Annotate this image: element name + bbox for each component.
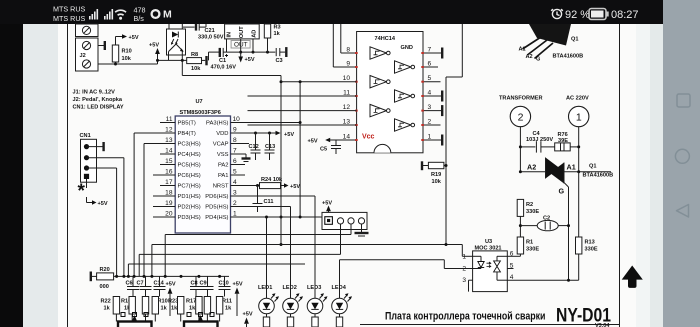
triac Q1: [519, 158, 613, 196]
U3 pin3 hook: [469, 280, 473, 291]
schematic frame right border: [619, 24, 621, 327]
resistor R13: [576, 172, 598, 281]
svg-text:C8: C8: [191, 280, 198, 286]
svg-text:PC5(HS): PC5(HS): [178, 163, 201, 169]
svg-text:GND: GND: [401, 45, 413, 51]
svg-text:10k: 10k: [122, 56, 132, 62]
nested wire L1: [165, 235, 351, 277]
svg-text:PD1(HS): PD1(HS): [178, 194, 201, 200]
+5V arrow right of C10: [233, 282, 243, 317]
MCU left pin labels: [178, 121, 201, 222]
svg-text:R2: R2: [526, 202, 533, 208]
gate wire: [568, 187, 570, 280]
svg-text:4: 4: [233, 179, 237, 186]
svg-text:A1: A1: [519, 47, 526, 53]
status: battery icon: [589, 9, 609, 20]
svg-text:5: 5: [428, 75, 432, 82]
ladder wire to pin10: [281, 81, 357, 83]
svg-text:J2: Pedal', Knopka: J2: Pedal', Knopka: [73, 97, 123, 103]
nav: square button: [677, 94, 690, 107]
svg-text:PC6(HS): PC6(HS): [178, 173, 201, 179]
+5V arrow at LED rail: [243, 312, 253, 327]
left pale strip: [23, 24, 58, 327]
inverter gate 2: [395, 61, 415, 73]
regulator U6: [225, 24, 260, 39]
svg-text:3: 3: [462, 277, 466, 284]
wire opto emitter rail: [156, 59, 187, 62]
connector CN1: [80, 133, 97, 182]
resistor R1: [507, 237, 539, 256]
svg-text:14: 14: [343, 134, 351, 141]
svg-text:R17: R17: [186, 299, 196, 305]
wire J2 pin2 to R10 node: [98, 63, 158, 66]
svg-text:92 %: 92 %: [565, 9, 590, 21]
resistor R22: [101, 297, 120, 322]
svg-text:13: 13: [343, 119, 351, 126]
svg-text:11: 11: [343, 90, 350, 97]
svg-text:3: 3: [428, 104, 432, 111]
svg-text:AC 220V: AC 220V: [566, 96, 589, 102]
svg-text:J1: IN AC 9..12V: J1: IN AC 9..12V: [73, 90, 116, 96]
svg-text:9: 9: [233, 127, 237, 134]
SWIM pin2 wire: [340, 224, 342, 254]
svg-text:R20: R20: [100, 267, 110, 273]
svg-text:7: 7: [233, 148, 237, 155]
svg-text:08:27: 08:27: [611, 9, 639, 21]
svg-text:C21: C21: [205, 28, 215, 34]
svg-text:A2: A2: [527, 163, 536, 172]
svg-text:R8: R8: [191, 52, 198, 58]
svg-text:AD: AD: [252, 30, 258, 38]
svg-text:B/s: B/s: [134, 14, 145, 23]
svg-text:A2: A2: [526, 54, 533, 60]
MCU right pin numbers: [233, 116, 241, 218]
svg-text:18: 18: [165, 190, 173, 197]
capacitor C7: [137, 276, 152, 296]
svg-text:3: 3: [233, 190, 237, 197]
nav: back triangle button: [677, 205, 689, 218]
svg-text:PA2: PA2: [218, 163, 229, 169]
capacitor C1: [209, 48, 237, 71]
74HC14 left pin stubs: [333, 53, 357, 140]
svg-text:IN: IN: [227, 32, 233, 38]
svg-text:C12: C12: [249, 144, 259, 150]
capacitor C8: [190, 276, 202, 296]
svg-text:330E: 330E: [526, 247, 539, 253]
ladder wire to pin13: [248, 124, 357, 126]
nav: circle button: [675, 149, 689, 163]
svg-text:M: M: [163, 9, 172, 21]
key bar at J2 pin1: [98, 41, 105, 50]
digit block 1: [118, 313, 152, 327]
LED4: [332, 260, 353, 327]
capacitor C12: [249, 133, 261, 160]
capacitor C9: [200, 276, 214, 296]
svg-text:11: 11: [166, 116, 173, 123]
LED3: [307, 196, 328, 327]
svg-text:+5V: +5V: [308, 139, 318, 145]
resistor R17: [186, 297, 202, 322]
svg-text:PD5(HS): PD5(HS): [205, 205, 228, 211]
svg-text:12: 12: [165, 127, 173, 134]
svg-text:VDD: VDD: [216, 131, 228, 137]
svg-text:G: G: [559, 187, 565, 196]
CN1 pin2 wire: [87, 158, 124, 277]
CN1 pin1 key bar: [87, 142, 104, 151]
svg-text:PC3(HS): PC3(HS): [178, 142, 201, 148]
svg-text:15: 15: [165, 158, 173, 165]
terminal circle 2: [510, 106, 530, 171]
svg-text:PC4(HS): PC4(HS): [178, 152, 201, 158]
capacitor C10: [219, 276, 231, 296]
74HC14 red pin marks: [355, 52, 424, 141]
svg-text:+5V: +5V: [243, 312, 253, 318]
74HC14 left pin numbers: [343, 47, 351, 141]
svg-text:R13: R13: [585, 240, 595, 246]
LED2: [283, 207, 304, 327]
+5V arrow at SWIM pin1: [322, 201, 332, 213]
svg-text:330E: 330E: [585, 247, 598, 253]
nested wire L3: [139, 254, 340, 276]
svg-text:000: 000: [100, 284, 109, 290]
svg-text:R22: R22: [101, 299, 111, 305]
inverter gate 5: [370, 104, 390, 116]
capacitor C21: [183, 24, 224, 41]
svg-text:2: 2: [462, 266, 466, 273]
svg-text:C10: C10: [219, 280, 229, 286]
inverter gate 6: [395, 119, 415, 131]
svg-text:Q1: Q1: [571, 37, 578, 43]
svg-text:1: 1: [233, 211, 237, 218]
MCU right pin labels: [205, 121, 229, 222]
optotriac U3 MOC3021: [473, 239, 508, 292]
U3 pin4 row wire: [507, 279, 578, 282]
svg-text:R10: R10: [122, 49, 132, 55]
svg-text:8: 8: [346, 47, 350, 54]
svg-text:LED1: LED1: [258, 285, 272, 291]
svg-text:STM8S003F3P6: STM8S003F3P6: [180, 110, 221, 116]
MCU left pin stubs: [134, 123, 175, 218]
svg-text:C5: C5: [320, 147, 327, 153]
svg-text:+5V: +5V: [245, 57, 255, 63]
svg-text:R1: R1: [526, 240, 533, 246]
svg-text:+5V: +5V: [322, 201, 332, 207]
svg-text:PB5(T): PB5(T): [178, 121, 196, 127]
resistor R23: [168, 297, 184, 322]
resistor R16: [121, 297, 135, 322]
capacitor C4: [519, 131, 555, 153]
svg-text:470,0 16V: 470,0 16V: [211, 65, 237, 71]
resistor R3: [264, 24, 280, 52]
svg-text:16: 16: [165, 169, 173, 176]
regulator OUT tag: [231, 41, 250, 49]
svg-text:C3: C3: [276, 58, 283, 64]
SWIM pin3 wire: [350, 224, 352, 235]
svg-text:MTS RUS: MTS RUS: [53, 14, 86, 23]
svg-text:TRANSFORMER: TRANSFORMER: [499, 96, 543, 102]
svg-text:PB4(T): PB4(T): [178, 131, 196, 137]
svg-text:6: 6: [510, 250, 514, 257]
capacitor C2: [520, 216, 570, 231]
svg-text:C13: C13: [265, 144, 275, 150]
svg-text:OUT: OUT: [239, 26, 245, 38]
CN1 pin4 star and +5V: [78, 179, 108, 207]
resistor R10: [112, 37, 131, 65]
status: alarm clock icon: [551, 9, 563, 18]
svg-text:*: *: [78, 181, 86, 202]
svg-text:C9: C9: [200, 280, 207, 286]
right white margin: [619, 24, 638, 327]
svg-text:10: 10: [233, 116, 241, 123]
capacitor C14: [154, 276, 166, 296]
status: signal icon 2: [104, 9, 113, 20]
svg-text:8: 8: [233, 137, 237, 144]
svg-text:6: 6: [233, 158, 237, 165]
svg-text:C7: C7: [137, 280, 144, 286]
status bar: [0, 0, 663, 24]
terminal circle 1: [569, 106, 589, 171]
capacitor C5: [320, 140, 341, 154]
ladder wire to pin12: [248, 110, 357, 112]
svg-text:J2: J2: [80, 53, 86, 59]
svg-text:1k: 1k: [225, 306, 232, 312]
bottom junction row wire: [114, 275, 229, 278]
svg-text:U7: U7: [196, 99, 203, 105]
svg-text:+5V: +5V: [98, 201, 108, 207]
svg-text:PD6(HS): PD6(HS): [205, 194, 228, 200]
svg-text:PD3(HS): PD3(HS): [178, 215, 201, 221]
svg-text:1k: 1k: [189, 306, 196, 312]
MCU right pin stubs: [231, 123, 323, 218]
svg-text:74HC14: 74HC14: [375, 36, 396, 42]
LED1: [258, 216, 279, 327]
capacitor C3: [276, 47, 287, 64]
status: signal icon 1: [89, 9, 98, 20]
resistor R2: [517, 199, 539, 237]
svg-text:19: 19: [165, 200, 173, 207]
svg-text:CN1: CN1: [80, 133, 91, 139]
regulator pins: [227, 39, 255, 54]
svg-text:+5V: +5V: [284, 132, 294, 138]
svg-text:5: 5: [233, 169, 237, 176]
svg-text:10: 10: [343, 75, 351, 82]
+5V down arrow at regulator: [238, 52, 254, 63]
74HC14 pin terminator bars: [441, 48, 443, 146]
74HC14 top feed wires: [333, 24, 341, 67]
svg-text:1: 1: [428, 134, 432, 141]
inverter gate 1: [370, 47, 390, 59]
android nav bar: [663, 0, 700, 327]
SWIM header J3: [322, 212, 367, 229]
resistor R8: [187, 52, 209, 72]
svg-text:+5V: +5V: [129, 35, 139, 41]
long bus to U3 pin1: [445, 24, 473, 256]
connector J1: [76, 24, 99, 37]
IC 74HC14 box: [357, 32, 423, 153]
svg-text:1k: 1k: [274, 31, 281, 37]
svg-text:R11: R11: [222, 299, 232, 305]
MCU left pin numbers: [165, 116, 173, 218]
wire LED4 to U3 pin2: [340, 260, 473, 269]
74HC14 right pin stubs: [423, 53, 441, 140]
resistor bank body 3: [142, 297, 148, 322]
svg-text:C6: C6: [126, 280, 133, 286]
resistor R11: [216, 297, 232, 322]
svg-text:103J 250V: 103J 250V: [526, 137, 553, 143]
wire MCU row13 drop: [143, 144, 145, 277]
svg-text:+5V: +5V: [233, 282, 243, 288]
+5V arrow left of C8: [166, 282, 176, 317]
status: wifi icon: [115, 10, 126, 15]
svg-text:R10: R10: [158, 299, 168, 305]
nested wire L4: [128, 264, 305, 276]
connector legend text: [73, 90, 124, 111]
svg-text:Q1: Q1: [589, 164, 596, 170]
svg-text:10k: 10k: [432, 179, 442, 185]
svg-text:6: 6: [428, 61, 432, 68]
svg-text:LED2: LED2: [283, 285, 297, 291]
right pale strip 1: [636, 24, 650, 327]
svg-text:BTA41600B: BTA41600B: [583, 173, 614, 179]
svg-text:+5V: +5V: [290, 184, 300, 190]
svg-text:A1: A1: [567, 163, 576, 172]
status: circle app icon: [152, 10, 160, 18]
U3 pin numbers: [462, 250, 513, 284]
svg-text:9: 9: [346, 61, 350, 68]
svg-text:Плата контроллера точечной сва: Плата контроллера точечной сварки: [385, 311, 546, 323]
capacitor C13: [265, 133, 276, 160]
digit block 2: [184, 313, 218, 327]
inverter gate 4: [395, 90, 415, 102]
svg-text:330,0 50V: 330,0 50V: [198, 34, 224, 40]
right pale strip 2: [650, 24, 663, 327]
U3 pin5 stub: [507, 268, 513, 270]
wire opto to bus: [182, 60, 282, 246]
svg-text:Vcc: Vcc: [362, 134, 375, 141]
ladder wire to pin11: [248, 95, 357, 97]
resistor R24: [260, 177, 301, 190]
svg-text:MTS RUS: MTS RUS: [53, 5, 86, 14]
capacitor C11: [253, 184, 274, 212]
resistor R20: [91, 267, 114, 290]
svg-text:1: 1: [462, 253, 466, 260]
left black strip: [0, 0, 23, 327]
svg-text:2: 2: [518, 111, 524, 123]
svg-text:14: 14: [165, 148, 173, 155]
svg-text:C4: C4: [533, 131, 541, 137]
svg-text:PD4(HS): PD4(HS): [205, 215, 228, 221]
svg-text:330E: 330E: [526, 209, 539, 215]
svg-text:7: 7: [428, 47, 432, 54]
inverter gate 3: [370, 76, 390, 88]
svg-text:C11: C11: [264, 199, 274, 205]
svg-text:R19: R19: [431, 172, 441, 178]
resistor R76: [555, 132, 581, 151]
scroll-up arrow overlay: [622, 266, 643, 288]
MCU STM8S003F3P6: [175, 110, 230, 233]
svg-text:PD2(HS): PD2(HS): [178, 205, 201, 211]
resistor bank body 7: [204, 297, 210, 322]
svg-text:2: 2: [233, 200, 237, 207]
TO-220 package Q1: [519, 24, 584, 63]
SWIM ground: [355, 224, 369, 236]
+5V arrow at optocoupler: [149, 43, 160, 65]
svg-text:1k: 1k: [104, 306, 111, 312]
svg-text:10k: 10k: [191, 66, 201, 72]
schematic frame left border: [67, 24, 69, 327]
svg-text:+5V: +5V: [166, 282, 176, 288]
nested wire L2: [152, 245, 446, 277]
CN1 pin3 wire: [87, 168, 117, 276]
svg-text:13: 13: [165, 137, 173, 144]
svg-text:2: 2: [428, 119, 432, 126]
capacitor C6: [126, 276, 140, 296]
svg-text:G: G: [536, 57, 540, 63]
svg-text:+5V: +5V: [149, 43, 159, 49]
svg-text:PA1: PA1: [218, 173, 229, 179]
optocoupler U5: [167, 24, 186, 60]
schematic frame bottom border: [360, 324, 620, 326]
svg-text:17: 17: [165, 179, 173, 186]
svg-text:R23: R23: [168, 299, 178, 305]
svg-text:PC7(HS): PC7(HS): [178, 184, 201, 190]
svg-text:VSS: VSS: [217, 152, 229, 158]
svg-text:1k: 1k: [161, 306, 168, 312]
svg-text:1: 1: [576, 111, 582, 123]
+5V arrow at R10: [116, 34, 139, 41]
svg-text:VCAP: VCAP: [213, 142, 229, 148]
svg-text:NRST: NRST: [213, 184, 229, 190]
svg-text:PA3(HS): PA3(HS): [206, 121, 229, 127]
svg-text:V3.04: V3.04: [595, 323, 610, 327]
wire MCU row12 drop: [133, 133, 135, 276]
connector J2: [76, 38, 99, 71]
svg-text:CN1: LED DISPLAY: CN1: LED DISPLAY: [73, 105, 124, 111]
bus wire to SWIM header: [299, 80, 302, 218]
74HC14 right pin numbers: [428, 47, 432, 141]
resistor R10: [152, 297, 168, 322]
svg-text:C1: C1: [219, 58, 226, 64]
svg-text:12: 12: [343, 104, 351, 111]
svg-text:BTA41600B: BTA41600B: [553, 54, 584, 60]
resistor R19: [422, 161, 448, 185]
ground at VSS: [242, 154, 251, 162]
svg-text:4: 4: [428, 90, 432, 97]
wire 5V row under regulator: [227, 51, 276, 54]
svg-text:U3: U3: [485, 239, 492, 245]
+5V arrow at VDD: [254, 131, 294, 138]
svg-text:20: 20: [165, 211, 173, 218]
svg-text:LED3: LED3: [307, 285, 321, 291]
+5V arrow at pin14: [308, 138, 333, 145]
svg-text:R3: R3: [274, 25, 281, 31]
